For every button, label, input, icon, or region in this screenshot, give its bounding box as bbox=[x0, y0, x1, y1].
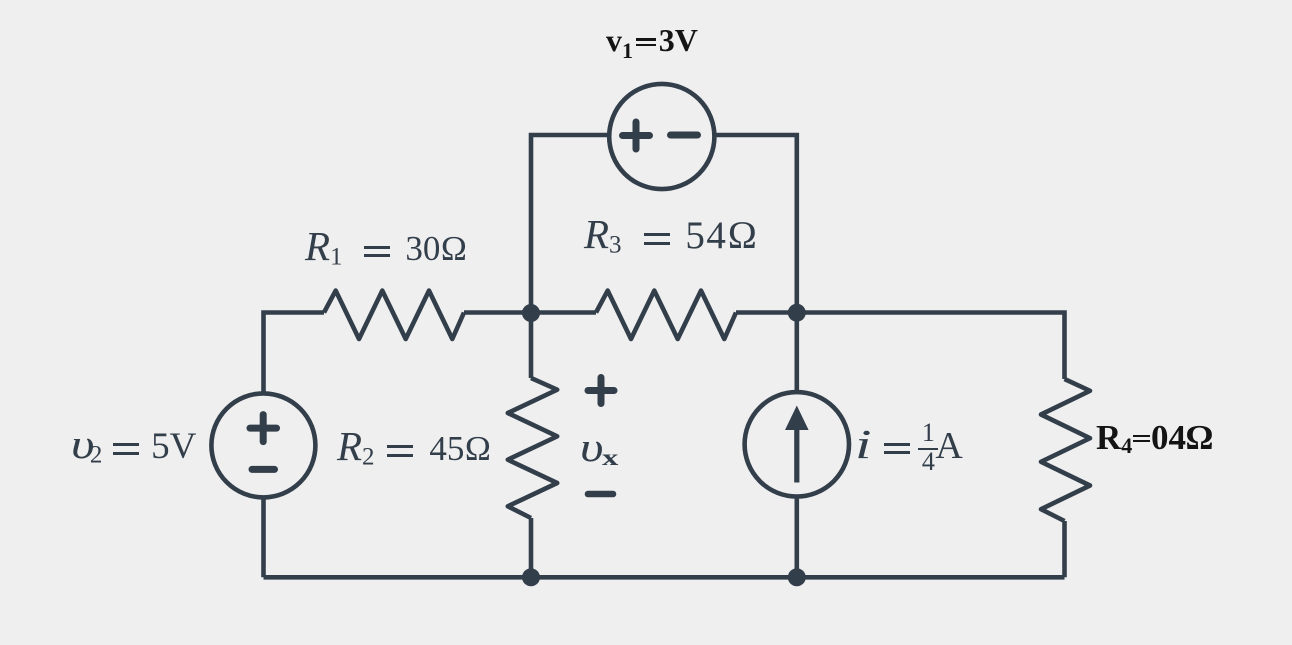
label R2 = 45 ohm bbox=[337, 426, 491, 470]
node C junction dot (bottom middle) bbox=[522, 568, 540, 586]
voltage source V2 circle bbox=[211, 393, 315, 497]
wire R1 to node A bbox=[464, 310, 531, 315]
label R3 = 54 ohm bbox=[584, 214, 759, 258]
vx plus sign bbox=[588, 378, 614, 404]
label vx bbox=[580, 427, 614, 469]
wire top-right from v1 to node B bbox=[714, 135, 797, 313]
current source arrow shaft bbox=[794, 427, 799, 483]
wire R4 bottom down to bottom rail bbox=[1062, 521, 1067, 577]
V2 plus sign bbox=[250, 415, 277, 442]
resistor R1 bbox=[324, 291, 464, 339]
wire bottom rail bbox=[264, 575, 1065, 580]
current source circle bbox=[745, 392, 849, 496]
label i = 1/4 A bbox=[855, 424, 963, 475]
node B junction dot bbox=[788, 304, 806, 322]
vx minus sign bbox=[588, 491, 613, 498]
current source arrow head bbox=[785, 406, 809, 431]
V2 minus sign bbox=[252, 466, 275, 473]
resistor R3 bbox=[596, 291, 736, 339]
node A junction dot bbox=[522, 304, 540, 322]
wire R3 to node B bbox=[736, 310, 797, 315]
label R4=04 ohm bbox=[1096, 420, 1213, 457]
resistor R4 bbox=[1041, 379, 1090, 521]
voltage source V1 circle bbox=[609, 84, 714, 189]
wire v2 bottom down to bottom rail bbox=[261, 497, 266, 577]
label v2 = 5V bbox=[71, 424, 196, 468]
wire top-left from node A up and right to v1 bbox=[531, 135, 610, 313]
wire node A to R3 bbox=[531, 310, 596, 315]
wire R2 bottom down to bottom rail bbox=[529, 518, 534, 577]
wire current source bottom down to bottom rail bbox=[794, 496, 799, 577]
wire node B right and down to R4 bbox=[797, 313, 1065, 380]
wire node B down to current source bbox=[794, 313, 799, 393]
node D junction dot (bottom right) bbox=[788, 568, 806, 586]
V1 minus sign bbox=[671, 132, 698, 139]
resistor R2 bbox=[508, 378, 557, 518]
label R1 = 30 ohm bbox=[305, 226, 467, 270]
label v1=3V bbox=[606, 24, 698, 62]
V1 plus sign bbox=[623, 122, 650, 149]
wire left main from v2 top up and right to R1 bbox=[264, 313, 325, 394]
wire node A down to R2 bbox=[529, 313, 534, 378]
